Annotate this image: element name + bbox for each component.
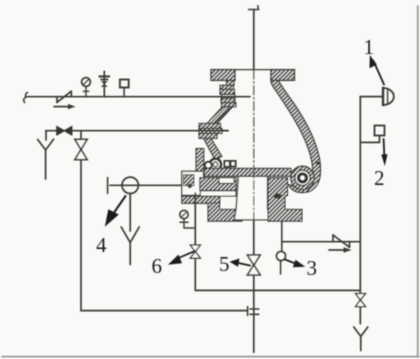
pump lower boss bar A xyxy=(199,123,221,128)
capped end tee xyxy=(107,178,109,194)
leader arrow to label 5 xyxy=(230,259,251,267)
gland bolt square B xyxy=(231,161,236,166)
pedestal white box xyxy=(219,178,234,184)
flow arrow under CH1 xyxy=(54,104,76,109)
wire: stub below C3 xyxy=(280,261,282,274)
drain funnel F2 xyxy=(121,227,139,265)
pump left casing wall xyxy=(196,149,204,173)
valve V5 on drain pipe xyxy=(247,255,260,275)
pressure gauge I1 on header xyxy=(82,78,91,97)
wire: bottom collect header y=289 xyxy=(195,289,360,291)
drain pipe below pump xyxy=(253,221,255,352)
casing cover plate xyxy=(204,168,291,176)
svg-text:1: 1 xyxy=(364,35,375,59)
valve V7 on right riser xyxy=(356,294,366,307)
pump top flange face xyxy=(211,69,295,71)
union flange pair at drain pipe xyxy=(248,307,259,316)
leader arrow to label 3 xyxy=(285,260,305,268)
pump upper boss bar C xyxy=(222,103,237,107)
leader arrow to label 1 xyxy=(370,55,385,85)
pump flange left bar xyxy=(211,70,235,81)
wire: priming branch to pump y=185.3 xyxy=(110,184,182,186)
gland bolt square A xyxy=(224,161,229,167)
diaphragm gauge G1 xyxy=(383,88,394,106)
valve V1 (horizontal bowtie) xyxy=(57,127,72,135)
gland nut big xyxy=(210,159,221,170)
svg-text:6: 6 xyxy=(152,254,163,278)
check valve CH1 on suction header xyxy=(57,91,71,102)
check valve CH2 xyxy=(333,235,350,247)
leader arrow to label 2 xyxy=(381,139,387,166)
bracket inner gland xyxy=(184,175,195,186)
wire: left branch vertical x=81 xyxy=(80,131,82,311)
volute flange dot xyxy=(316,162,320,166)
pump flange left stem xyxy=(227,80,235,85)
pedestal centre trapezoid xyxy=(234,176,269,220)
wire: recirculation line y=241.7 xyxy=(282,241,361,243)
svg-text:5: 5 xyxy=(219,252,230,276)
pump lower boss bar B xyxy=(199,128,222,133)
gland nut small xyxy=(205,162,212,169)
pipe break symbol at left end xyxy=(23,93,27,103)
pump upper boss cap xyxy=(220,85,234,89)
bearing bracket block xyxy=(182,171,204,195)
pump flange right bar xyxy=(271,70,295,81)
pump lower wall band xyxy=(204,138,223,159)
volute curl annulus xyxy=(291,166,315,190)
svg-text:3: 3 xyxy=(307,256,318,280)
pedestal right bolt xyxy=(273,193,281,198)
pump tap boss neck xyxy=(222,94,236,98)
pump upper boss bar B xyxy=(221,98,235,102)
wire: casing drain drop x=281.8 xyxy=(281,222,283,252)
drain funnel F1 xyxy=(38,139,54,179)
pedestal left side xyxy=(200,178,236,191)
pedestal left foot xyxy=(208,203,242,221)
pump inclined suction pipe wall right xyxy=(214,107,233,124)
valve V2 (vertical bowtie) xyxy=(75,139,87,159)
leader arrow to label 4 xyxy=(105,196,126,227)
sampling pot S2 (square) xyxy=(375,126,385,136)
wire: pump drain leg x=195.3 xyxy=(194,193,196,290)
pedestal right side xyxy=(268,178,302,221)
discharge pipe upper xyxy=(253,10,255,71)
wire: corner drop to funnel F1 xyxy=(45,131,47,140)
leader arrow to label 6 xyxy=(168,251,195,265)
bracket white bore bar xyxy=(200,191,236,196)
bracket bolt dot xyxy=(188,184,192,188)
wire: corner bottom left y=310.6 xyxy=(81,310,248,312)
valve V6 xyxy=(190,245,200,258)
wire: right riser x=360.3 xyxy=(359,97,361,324)
wire: gauge to drain leg xyxy=(184,227,195,229)
wire: gauge stub y=96.6 xyxy=(360,96,383,98)
bracket lower band xyxy=(182,196,220,203)
rotameter C4 (circle) xyxy=(122,177,138,193)
volute wall band xyxy=(271,80,321,192)
pump inclined suction pipe wall left xyxy=(207,107,226,124)
instrument I2 (vent valve) on header xyxy=(99,71,110,96)
pump lower boss bar C xyxy=(199,133,217,138)
svg-text:2: 2 xyxy=(374,166,385,190)
volute eye xyxy=(299,174,307,182)
bracket gauge I4 xyxy=(180,210,188,228)
wire: flushing line y=130.7 xyxy=(46,130,228,132)
wire: drop from C4 xyxy=(129,194,131,232)
wire: branch to sampling pot y=142.4 xyxy=(360,136,379,143)
centreline tick top xyxy=(249,6,259,10)
wire: top suction header y=96.7 xyxy=(26,96,251,98)
pump upper boss bar A xyxy=(220,89,235,94)
sight glass C3 xyxy=(276,251,285,260)
instrument I3 (square tag) on header xyxy=(120,80,129,97)
flow arrow under CH2 xyxy=(329,247,352,252)
wire: flushing line overlay across boss xyxy=(199,130,228,132)
drain funnel F3 xyxy=(354,327,368,351)
centreline dash-dot through pump xyxy=(253,70,255,221)
svg-text:4: 4 xyxy=(96,233,107,257)
